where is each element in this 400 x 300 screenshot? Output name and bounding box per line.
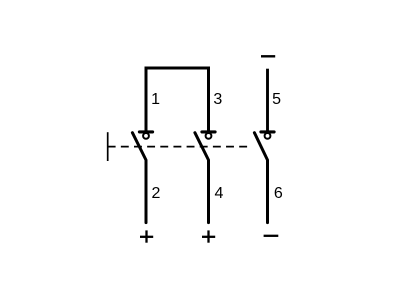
pole 1 fixed contact circle [143,133,149,139]
pole 2 fixed contact bar [202,130,215,133]
svg-text:5: 5 [272,91,281,108]
svg-text:2: 2 [151,185,160,202]
plus polarity mark below terminal 2 [140,230,153,242]
pole 3 moving blade (contact 5-6) [254,133,267,223]
svg-text:3: 3 [213,91,222,108]
pole 3 fixed contact bar [261,130,274,133]
pole 3 fixed contact circle [265,133,271,139]
minus polarity mark above terminal 5 [261,55,275,57]
svg-text:6: 6 [274,185,283,202]
minus polarity mark below terminal 6 [264,235,279,237]
pole 1 fixed contact bar [139,130,152,133]
pole 2 moving blade (contact 3-4) [195,133,209,223]
wire: terminal 5 lead [266,69,269,132]
svg-text:4: 4 [215,185,224,202]
linkage end tick (actuator bar) [107,132,109,161]
wire: top bracket joining terminal 1 and terminal 3 [146,68,209,132]
mechanical linkage dashed line [108,146,252,148]
plus polarity mark below terminal 4 [202,230,215,242]
pole 1 moving blade (contact 1-2) [132,133,146,223]
pole 2 fixed contact circle [206,133,212,139]
svg-text:1: 1 [151,91,160,108]
